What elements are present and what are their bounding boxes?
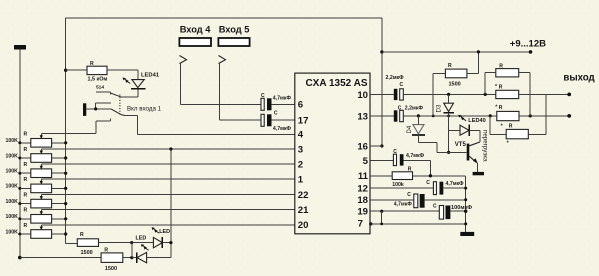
wire pot3 wiper to IC pin [41,163,294,165]
transistor VT5 [455,142,480,164]
svg-text:1500: 1500 [81,250,93,256]
svg-text:4,7мкФ: 4,7мкФ [273,95,292,101]
ground chassis bar top-left [14,45,26,50]
wire pot4 wiper to IC pin [41,178,294,180]
svg-text:100K: 100K [6,169,19,175]
resistor R 1500 upper [77,232,98,256]
wire top supply rail y=18 [66,17,382,19]
svg-text:R: R [24,177,28,183]
svg-text:3: 3 [298,144,303,155]
resistor R2 1500 top-right [433,63,467,87]
wire bottom-left horizontal to R 1500 lower [20,257,101,259]
ground bar VT5 emitter [473,172,484,175]
svg-text:+9...12В: +9...12В [510,38,546,49]
LED LED41 [123,72,160,96]
svg-text:R: R [90,61,94,67]
svg-text:CXA 1352 AS: CXA 1352 AS [305,78,367,89]
svg-text:4,7мкФ: 4,7мкФ [394,202,413,208]
wire R2 right to +V rail [467,50,480,73]
wire left bus vertical x=19.8 [18,50,22,260]
wire pin 13 output line [403,114,569,117]
wire pot5 wiper to IC pin [41,193,294,195]
label +9...12V [510,38,546,49]
wire pin 19 branch down [381,211,383,224]
svg-text:1,5 кОм: 1,5 кОм [88,76,108,82]
svg-text:100K: 100K [6,153,19,159]
svg-text:4,7мкФ: 4,7мкФ [406,153,425,159]
wire C12 to gnd bus [443,187,467,190]
svg-text:R: R [24,147,28,153]
switch lower stationary contact [96,119,111,121]
svg-text:Вход 4: Вход 4 [180,25,212,35]
svg-text:20: 20 [298,220,309,231]
switch lower arm [111,109,121,115]
wire LED pair riser to pin 3 line [169,147,172,257]
svg-text:D4: D4 [407,125,413,133]
svg-text:100K: 100K [6,199,19,205]
svg-text:100k: 100k [392,182,404,188]
wire C18 to gnd bus [425,198,468,201]
node output terminal 1 [567,93,571,97]
wire bus B corner to R 1500 upper-left [66,242,78,244]
svg-text:C: C [274,110,278,116]
potentiometer R8 100K [6,223,68,239]
svg-text:C: C [426,180,430,186]
svg-text:100K: 100K [6,214,19,220]
wire pin 10 output line [403,93,569,96]
potentiometer R5 100K [6,177,68,193]
wire pot2 wiper to IC pin [41,148,294,150]
svg-text:R: R [499,63,503,69]
label Vkl vhoda 1 [127,105,162,112]
svg-text:C: C [393,149,397,155]
svg-text:LED: LED [159,229,170,235]
svg-text:19: 19 [357,207,368,218]
svg-text:R: R [24,132,28,138]
wire top rail drop x=381.9 [380,18,383,148]
svg-text:12: 12 [357,184,368,195]
ground bar main [460,232,474,236]
connector input 4 [180,56,187,64]
switch upper stationary contact [96,92,111,94]
wire pot6 wiper to IC pin [41,209,294,211]
wire Ra left drop [485,73,496,95]
wire LED40 cathode to collector [469,130,480,142]
svg-text:2,2мкФ: 2,2мкФ [386,75,405,81]
label Vhod 5 [219,25,250,35]
capacitor C13 2,2uF [394,106,424,122]
svg-text:R: R [509,124,513,130]
potentiometer R6 100K [6,192,68,208]
svg-text:R: R [448,63,452,69]
svg-text:LED40: LED40 [468,118,485,124]
wire input 5 to C2 [219,64,261,121]
wire pin 12 stub [370,187,433,189]
svg-text:Вход 5: Вход 5 [219,25,250,35]
svg-text:4,7мкФ: 4,7мкФ [273,126,292,132]
capacitor C2 4,7uF input5 [261,110,295,132]
svg-text:100мкФ: 100мкФ [451,205,472,211]
svg-text:2: 2 [298,159,303,170]
wire R1500 lower right lead [123,256,134,259]
wire Rd right riser to pin10 line [528,94,546,134]
svg-text:11: 11 [358,171,369,182]
svg-text:R: R [104,247,108,253]
svg-text:100K: 100K [6,184,19,190]
op-amp U1 CXA 1352 AS [295,73,370,234]
wire bus B vertical x=65.7 [65,18,67,243]
capacitor C10 2,2uF [386,75,405,100]
wire pin 5 stub [370,160,393,162]
node switch common junction [94,107,97,110]
potentiometer R2 100K [6,132,68,148]
wire switch common [86,103,111,109]
svg-text:Вкл входа 1: Вкл входа 1 [127,105,162,112]
diode D3 [436,94,455,112]
label Vhod 4 [180,25,212,35]
svg-text:514: 514 [96,85,104,91]
svg-text:R: R [80,232,84,238]
wire pin 13 stub [370,115,394,117]
svg-text:LED41: LED41 [141,72,160,78]
svg-text:R: R [499,105,503,111]
svg-text:C: C [261,93,265,99]
svg-text:1500: 1500 [449,81,461,87]
wire C5 to pin 11 node [404,161,431,176]
potentiometer R7 100K [6,208,68,224]
label vyhod [563,73,594,84]
wire input 4 to C1 [180,64,261,105]
svg-text:4: 4 [298,130,304,141]
wire pin 4 line [138,133,295,135]
svg-text:5: 5 [363,156,369,167]
node junction bus B to R1 tap [64,69,67,72]
diode D4 [407,116,425,135]
svg-text:21: 21 [298,205,309,216]
svg-text:4,7мкФ: 4,7мкФ [446,181,465,187]
wire C19 to gnd bus [450,210,467,213]
wire R1 right lead to LED41 [107,70,138,79]
wire switch to pot1 wiper [41,121,96,134]
resistor Ra [496,63,519,77]
wire switch to LED41 cathode [121,96,138,98]
resistor R 1500 lower [101,247,123,272]
wire Rd branch [490,116,506,134]
capacitor C19 100uF [433,204,472,219]
potentiometer R4 100K [6,162,68,178]
svg-text:R: R [24,223,28,229]
wire pin 16 stub [370,145,382,147]
resistor Rc [495,105,519,121]
resistor R1 1,5 kOm [87,61,107,91]
svg-text:1500: 1500 [105,266,117,272]
svg-text:R: R [499,85,503,91]
LED LED40 [449,115,486,136]
wire +V rail [382,50,532,54]
svg-text:R: R [24,162,28,168]
switch link dotted line [119,95,121,115]
wire pin 7 ground line [369,222,467,225]
svg-text:10: 10 [357,90,368,101]
LED upper pointing right [132,227,171,248]
switch button bar [83,103,86,116]
wire R1 left lead [66,69,87,71]
switch upper arm [111,93,121,97]
svg-text:C: C [400,82,404,88]
label peregruzka [481,130,488,162]
capacitor C1 4,7uF input4 [261,93,295,111]
LED lower pointing left [132,235,171,263]
capacitor C12 4,7uF [426,180,464,195]
svg-text:R: R [408,166,412,172]
wire VT5 emitter to ground [476,163,478,172]
resistor Rd [501,124,529,147]
terminal box input 4 [179,38,211,46]
wire LED pair left link [131,243,133,258]
wire pot7 wiper to IC pin [41,224,294,226]
svg-text:C: C [398,106,402,112]
svg-text:R: R [24,208,28,214]
wire switch lower arm to pin 4 feeder [121,115,138,135]
svg-text:LED: LED [136,235,147,241]
svg-text:D3: D3 [436,104,443,112]
svg-text:17: 17 [298,116,309,127]
svg-text:R: R [24,192,28,198]
wire pin 19 stub [370,210,439,213]
svg-text:22: 22 [298,190,309,201]
capacitor C18 4,7uF [394,192,425,208]
svg-text:2,2мкФ: 2,2мкФ [405,106,424,112]
wire D3 cathode down to base line [447,113,450,154]
svg-text:6: 6 [298,100,303,111]
svg-text:перегрузка: перегрузка [481,130,488,162]
svg-text:7: 7 [358,218,363,229]
wire R1500 upper right lead [99,241,134,244]
svg-text:13: 13 [357,111,368,122]
resistor Rb [495,84,519,99]
wire D4 cathode to VT5 base [418,136,466,153]
node output terminal 2 [567,114,571,118]
svg-text:100K: 100K [6,138,19,144]
wire pin 10 stub [370,93,394,95]
svg-text:18: 18 [357,195,368,206]
potentiometer R3 100K [6,147,68,163]
svg-text:100K: 100K [6,229,19,235]
svg-text:1: 1 [298,175,304,186]
resistor R 100k [392,166,412,188]
terminal box input 5 [218,38,249,46]
svg-text:VT5: VT5 [455,142,467,148]
svg-text:C: C [433,204,437,210]
svg-text:выход: выход [563,73,594,84]
capacitor C5 4,7uF [393,149,424,166]
wire pin 11 stub [370,175,392,177]
svg-text:C: C [407,192,411,198]
wire R2 left drop to pin13 line [432,73,434,116]
connector input 5 [219,56,226,64]
wire pin 11 line to gnd bus [413,174,466,232]
wire Ra right drop to pin13 line [519,73,531,116]
svg-text:16: 16 [357,141,368,152]
wire pin 18 stub [370,199,414,201]
